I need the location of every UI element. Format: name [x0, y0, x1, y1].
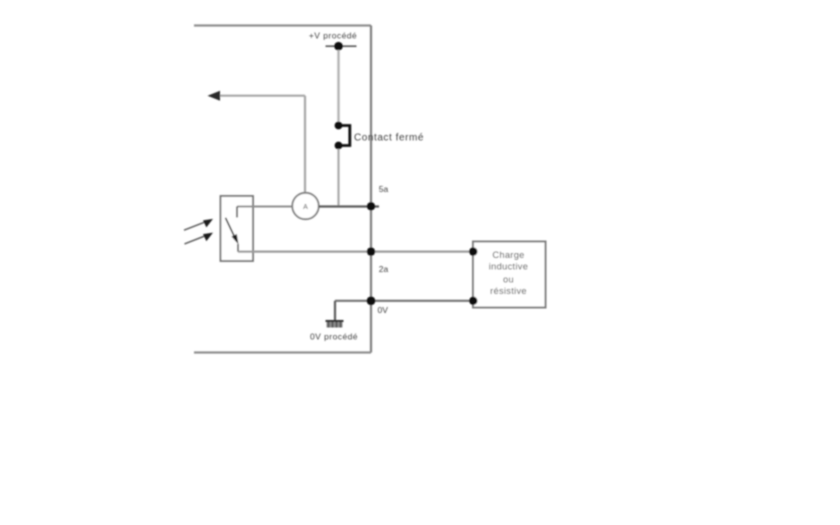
wire contact to junction with ammeter wire	[337, 149, 339, 207]
svg-text:+V procédé: +V procédé	[309, 31, 357, 41]
svg-text:ou: ou	[503, 274, 514, 284]
light arrow 2 (lower)	[185, 233, 214, 244]
node 2a junction dot	[367, 247, 375, 255]
charge lower terminal dot	[469, 297, 477, 305]
wire 0V run to charge	[335, 300, 473, 302]
output signal arrow wire	[208, 91, 306, 194]
device frame right edge (terminal bus)	[370, 26, 372, 353]
+V procede terminal	[326, 42, 357, 51]
wire ammeter to node 5a, with stub	[319, 205, 379, 207]
device frame top edge	[194, 24, 371, 26]
node 0V junction dot	[367, 296, 376, 305]
sensor switch contact inside box	[226, 207, 239, 252]
ammeter A	[292, 193, 318, 219]
svg-text:0V: 0V	[378, 305, 389, 315]
svg-text:0V procédé: 0V procédé	[310, 332, 358, 342]
device frame bottom edge	[194, 351, 371, 353]
svg-text:Contact fermé: Contact fermé	[354, 133, 424, 144]
charge box	[473, 242, 546, 308]
svg-text:2a: 2a	[379, 264, 389, 274]
svg-text:A: A	[303, 204, 308, 211]
svg-text:Charge: Charge	[492, 250, 524, 260]
charge upper terminal dot	[469, 247, 477, 255]
light arrow 1 (upper)	[184, 219, 213, 230]
wire +V terminal down to contact	[337, 50, 339, 122]
svg-text:5a: 5a	[379, 184, 389, 194]
photoelectric sensor box	[221, 196, 254, 261]
wire sensor output (2a run) box to charge	[238, 251, 473, 253]
ground symbol (0V procede)	[326, 321, 344, 328]
ground branch wire	[334, 301, 336, 321]
contact ferme (closed contact symbol)	[335, 122, 350, 150]
svg-text:résistive: résistive	[490, 286, 527, 296]
node 5a junction dot	[367, 202, 375, 210]
svg-text:inductive: inductive	[489, 262, 528, 272]
wire sensor box to ammeter	[237, 206, 292, 208]
charge box label (4 lines)	[489, 250, 528, 296]
